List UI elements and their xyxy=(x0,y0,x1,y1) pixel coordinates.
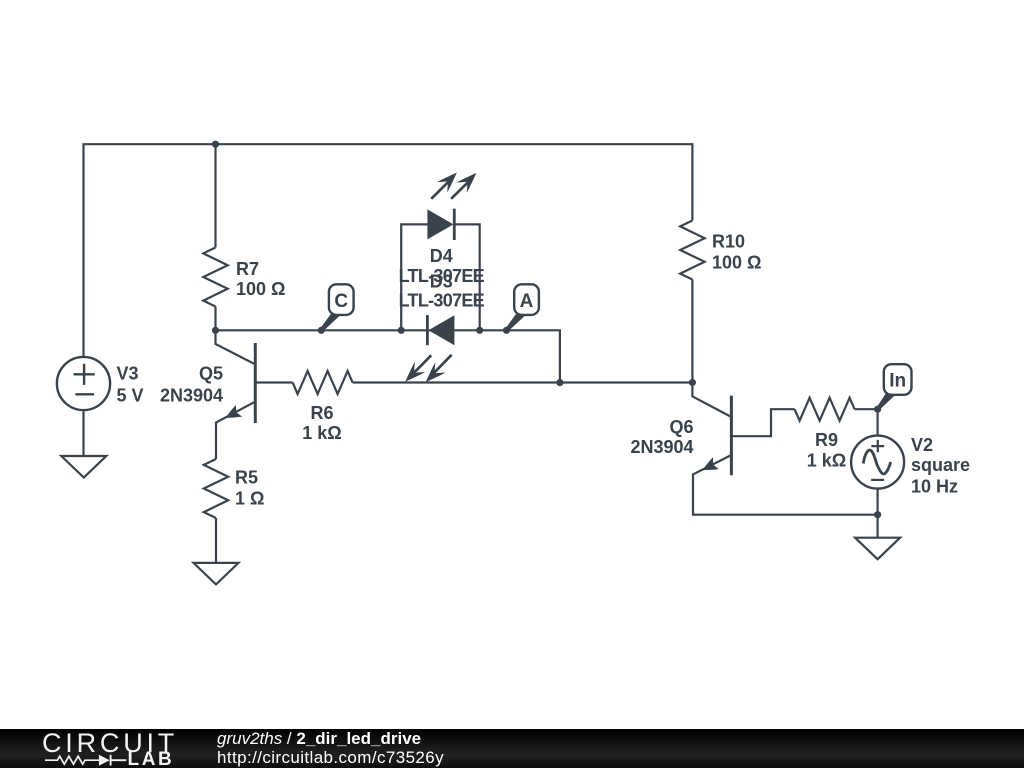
svg-text:square: square xyxy=(911,455,970,475)
resistor R6 1 kOhm xyxy=(293,371,353,394)
svg-text:A: A xyxy=(520,291,534,312)
svg-text:100 Ω: 100 Ω xyxy=(712,252,761,272)
node junction (321.3,330.3) xyxy=(318,327,325,334)
svg-text:R6: R6 xyxy=(310,403,333,423)
node junction (877.6,409.2) xyxy=(874,406,881,413)
node junction (215.5,330.3) xyxy=(212,327,219,334)
wire: R6 to Q6 collector node xyxy=(353,381,693,383)
svg-text:R9: R9 xyxy=(815,430,838,450)
LED D4 (points right) xyxy=(427,209,453,239)
ground (R5) xyxy=(194,563,239,585)
node In label xyxy=(876,394,896,411)
svg-text:D3: D3 xyxy=(430,272,453,292)
wire: node C horizontal wire to corner down to lower wire xyxy=(216,330,560,382)
svg-text:V3: V3 xyxy=(117,364,139,384)
svg-text:2N3904: 2N3904 xyxy=(630,437,693,457)
svg-text:Q6: Q6 xyxy=(669,417,693,437)
wire: Q5 base / lower horizontal wire xyxy=(255,381,292,383)
node junction (401.2,330.3) xyxy=(398,327,405,334)
svg-text:5 V: 5 V xyxy=(117,386,144,406)
svg-text:100 Ω: 100 Ω xyxy=(236,279,285,299)
transistor Q5 2N3904 xyxy=(216,330,256,364)
svg-text:1 Ω: 1 Ω xyxy=(235,489,264,509)
wire: R10 bottom lead xyxy=(691,280,693,383)
resistor R5 1 Ohm xyxy=(204,459,228,518)
svg-text:R10: R10 xyxy=(712,232,745,252)
resistor R9 1 kOhm xyxy=(795,398,855,421)
svg-text:Q5: Q5 xyxy=(199,364,223,384)
LED D3 (points left) xyxy=(428,315,454,345)
node junction (559.9,382.6) xyxy=(556,379,563,386)
svg-text:D4: D4 xyxy=(430,246,453,266)
svg-text:R7: R7 xyxy=(236,259,259,279)
svg-text:C: C xyxy=(334,291,348,312)
node A label xyxy=(505,314,526,331)
transistor Q6 2N3904 xyxy=(692,383,731,418)
wire: V3 to ground xyxy=(82,410,84,456)
svg-text:R5: R5 xyxy=(235,468,258,488)
svg-text:In: In xyxy=(889,370,906,391)
wire: V2 to ground xyxy=(876,489,878,538)
ground (V2) xyxy=(855,538,900,560)
CircuitLab logo schematic glyph xyxy=(45,753,127,767)
node junction (506.5,330.3) xyxy=(503,327,510,334)
node junction (215.5,144.2) xyxy=(212,141,219,148)
wire: LED branch (anti-parallel pair) xyxy=(401,224,480,330)
wire: R9 to node In xyxy=(855,408,878,410)
resistor R7 100 Ohm xyxy=(203,248,227,307)
ground (V3) xyxy=(61,456,106,478)
svg-text:1 kΩ: 1 kΩ xyxy=(302,423,341,443)
voltage source V2 (square 10 Hz) xyxy=(876,409,878,436)
node junction (692.4,382.5) xyxy=(689,379,696,386)
node junction (479.7,330.3) xyxy=(476,327,483,334)
resistor R10 100 Ohm xyxy=(680,221,704,280)
svg-text:2N3904: 2N3904 xyxy=(160,386,223,406)
voltage source V3 xyxy=(57,357,110,410)
node junction (877.6,514.7) xyxy=(874,511,881,518)
wire: R7 top lead from top rail xyxy=(214,144,216,247)
wire: R5 to ground xyxy=(215,518,217,563)
svg-text:V2: V2 xyxy=(911,435,933,455)
svg-text:LTL-307EE: LTL-307EE xyxy=(399,291,485,311)
node C label xyxy=(320,314,341,331)
wire: top rail from V3 up through top-right corner down to R10 xyxy=(84,144,693,357)
CircuitLab logo wordmark xyxy=(42,728,178,759)
wire: R7 bottom lead to node C wire xyxy=(214,307,216,331)
svg-text:10 Hz: 10 Hz xyxy=(911,476,958,496)
svg-text:1 kΩ: 1 kΩ xyxy=(807,450,846,470)
